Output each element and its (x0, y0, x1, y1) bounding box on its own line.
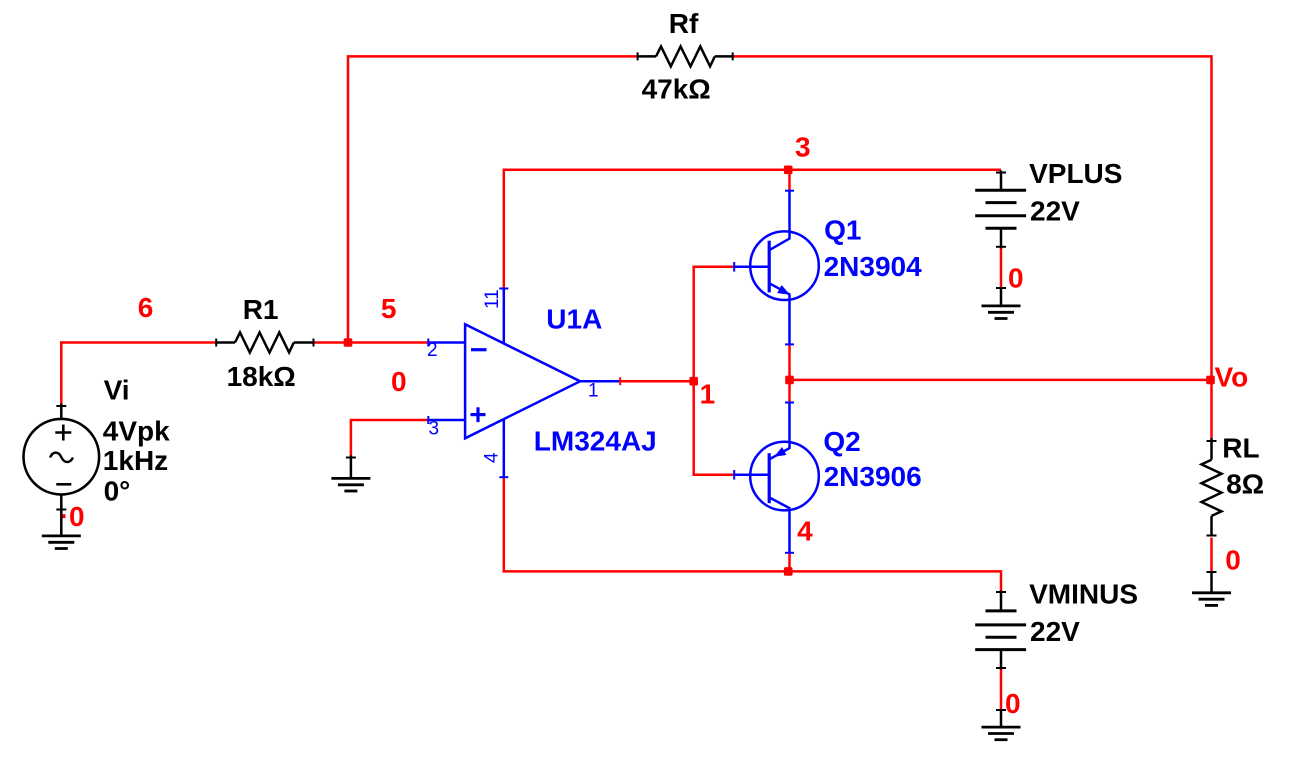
svg-text:5: 5 (381, 293, 397, 324)
svg-text:R1: R1 (243, 294, 279, 325)
svg-text:1: 1 (700, 379, 716, 410)
svg-text:0: 0 (1005, 688, 1021, 719)
svg-text:VMINUS: VMINUS (1029, 579, 1138, 610)
svg-text:3: 3 (795, 132, 811, 163)
svg-text:3: 3 (429, 419, 440, 440)
svg-text:Rf: Rf (669, 8, 699, 39)
svg-text:1kHz: 1kHz (103, 445, 168, 476)
svg-text:0: 0 (391, 366, 407, 397)
svg-text:22V: 22V (1030, 196, 1080, 227)
svg-text:0: 0 (1225, 544, 1241, 575)
svg-text:0°: 0° (104, 475, 131, 506)
svg-text:4: 4 (797, 516, 813, 547)
svg-text:Q2: Q2 (823, 426, 860, 457)
svg-text:4Vpk: 4Vpk (103, 415, 170, 446)
svg-text:1: 1 (588, 380, 599, 401)
svg-text:0: 0 (1008, 262, 1024, 293)
svg-text:4: 4 (482, 452, 503, 463)
svg-text:6: 6 (138, 292, 154, 323)
svg-text:0: 0 (69, 501, 85, 532)
svg-text:22V: 22V (1030, 616, 1080, 647)
svg-text:Vi: Vi (104, 375, 130, 406)
svg-text:Vo: Vo (1215, 362, 1249, 393)
svg-text:8Ω: 8Ω (1226, 469, 1264, 500)
svg-text:LM324AJ: LM324AJ (534, 425, 657, 456)
svg-text:2N3906: 2N3906 (824, 461, 922, 492)
svg-text:47kΩ: 47kΩ (642, 73, 711, 104)
svg-text:18kΩ: 18kΩ (227, 361, 296, 392)
svg-text:RL: RL (1222, 433, 1259, 464)
svg-text:11: 11 (482, 289, 503, 309)
svg-text:VPLUS: VPLUS (1029, 158, 1122, 189)
svg-text:U1A: U1A (546, 304, 602, 335)
svg-text:2N3904: 2N3904 (824, 251, 923, 282)
svg-text:Q1: Q1 (824, 215, 861, 246)
